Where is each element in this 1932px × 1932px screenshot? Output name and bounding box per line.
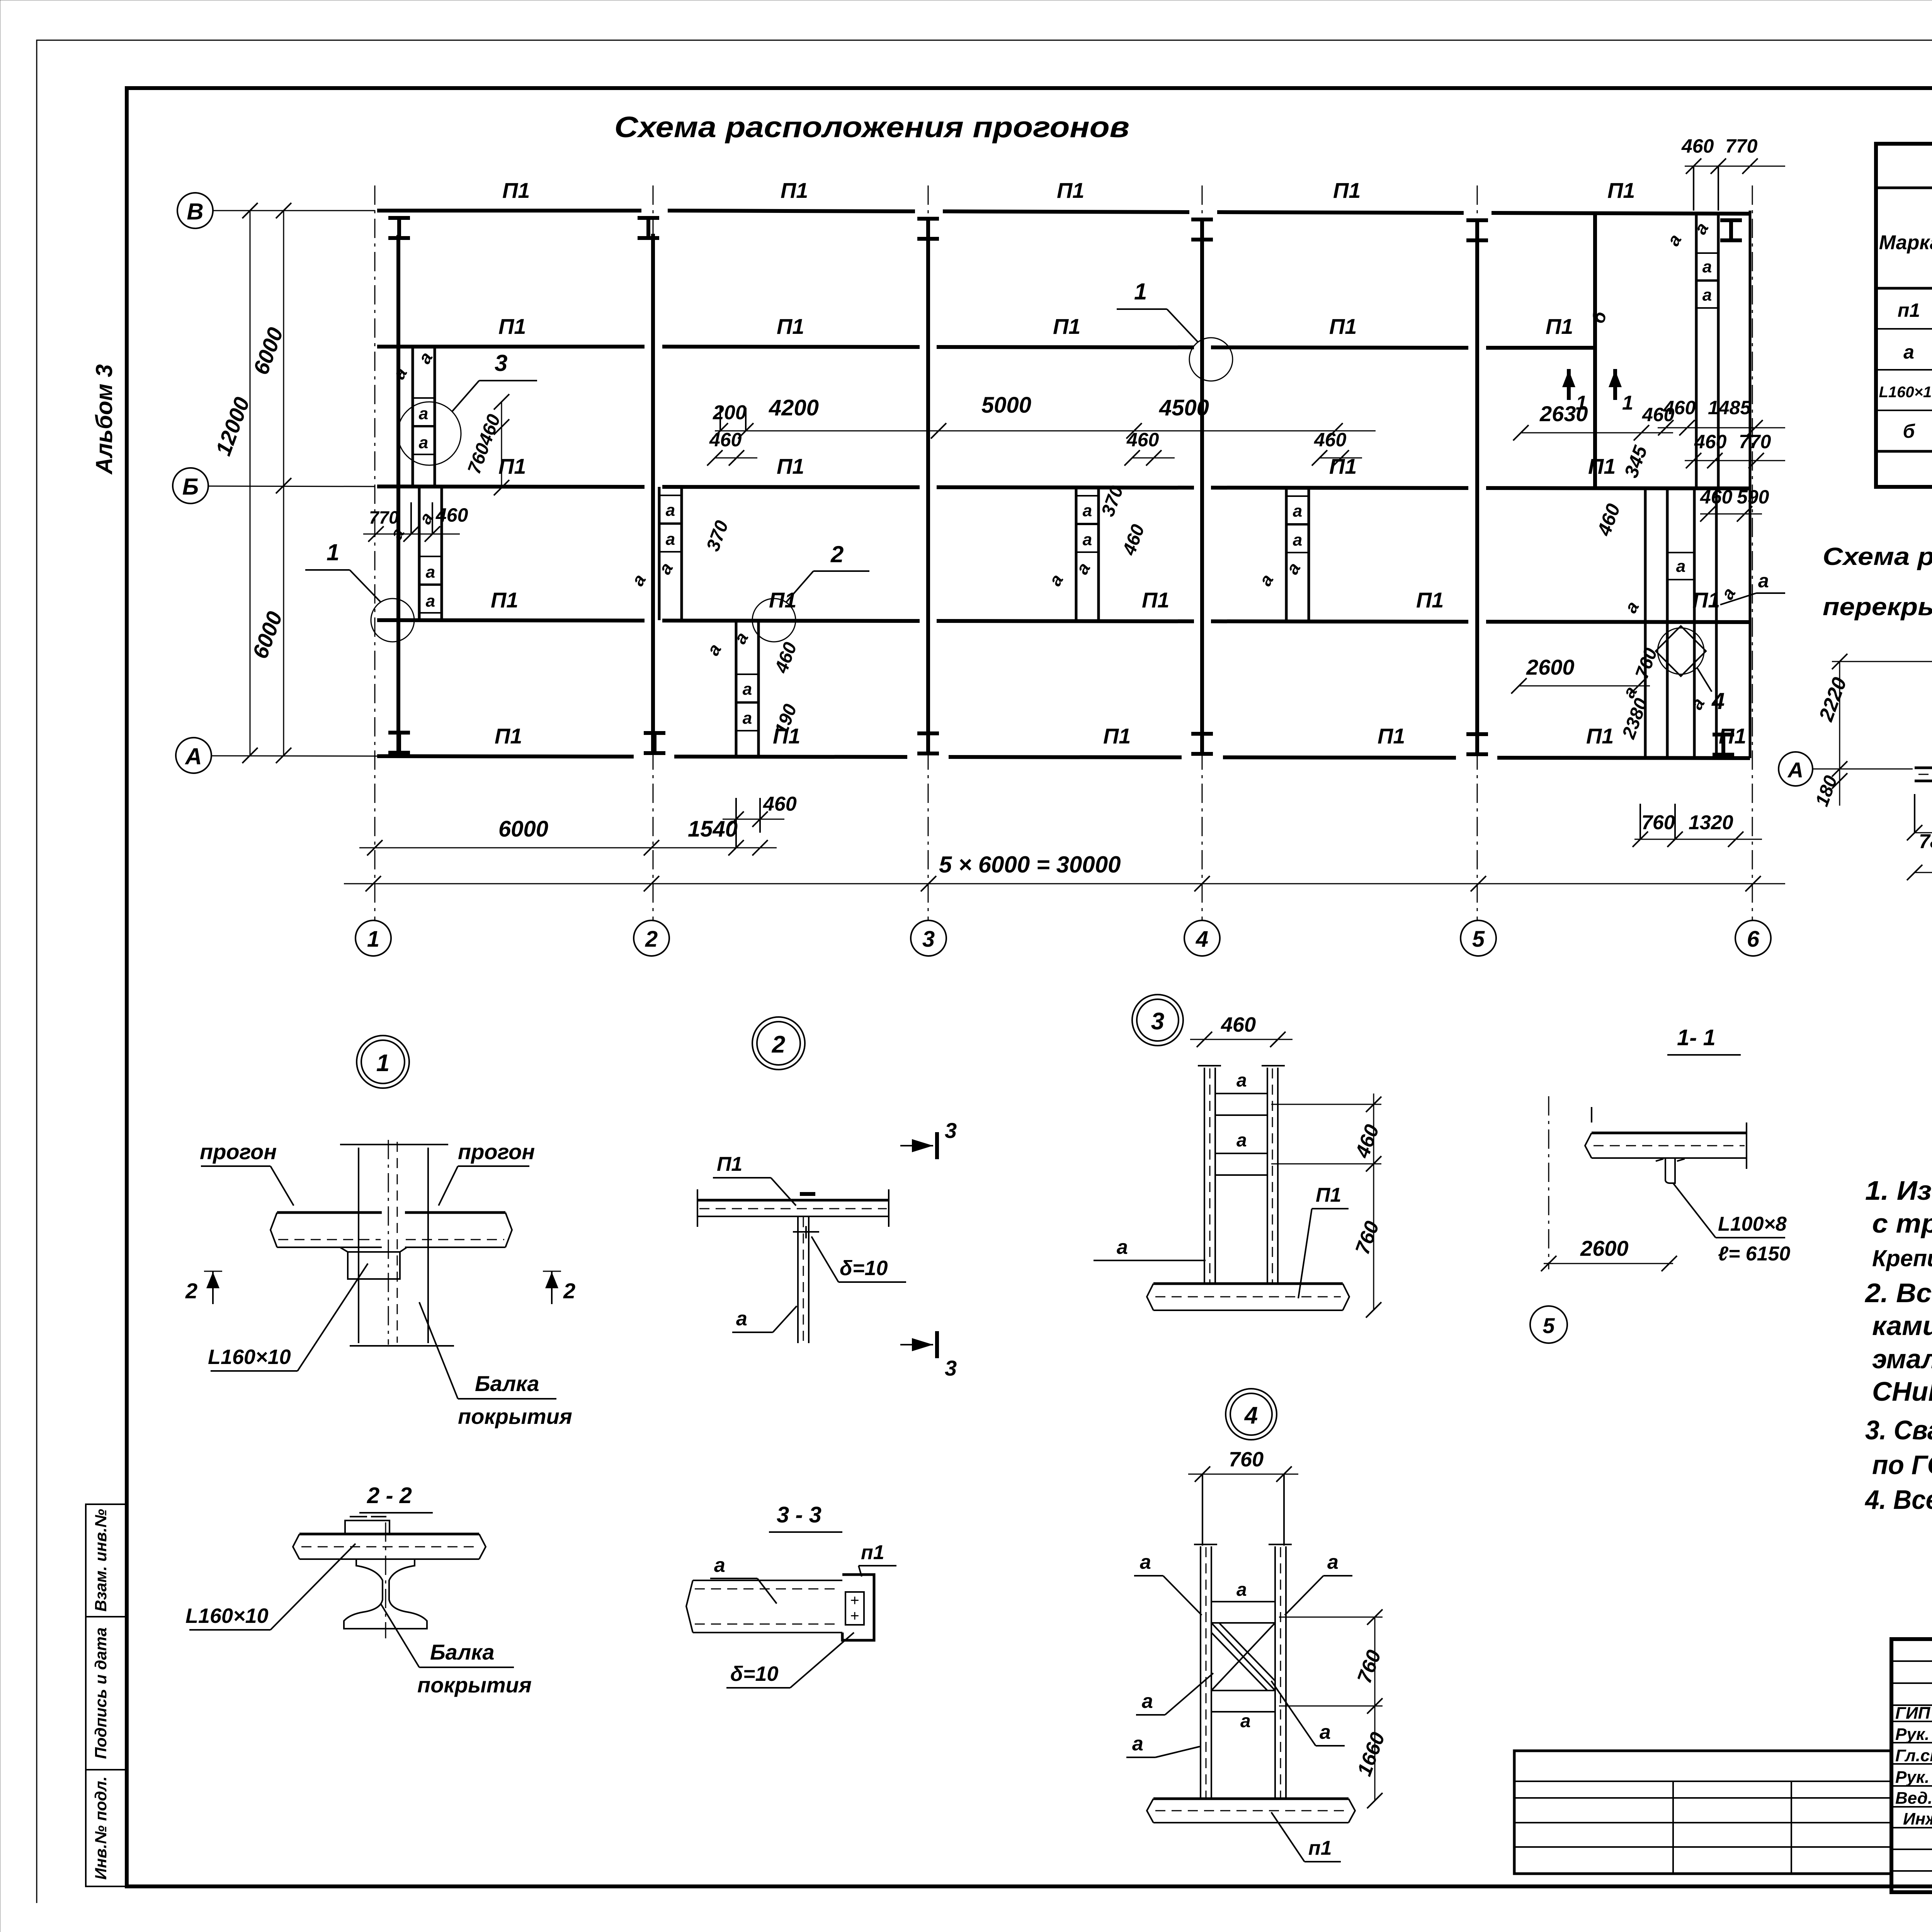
callout circle узел 3 on plan bbox=[398, 350, 537, 465]
svg-text:а: а bbox=[1240, 1711, 1251, 1731]
svg-text:а: а bbox=[1293, 531, 1302, 549]
label 2-2 bbox=[185, 1483, 532, 1697]
svg-text:3: 3 bbox=[1151, 1008, 1164, 1035]
beam column 6 bbox=[1750, 185, 1752, 920]
svg-text:эмалями ПФ-1126 ТУ6-10-1540-7: эмалями ПФ-1126 ТУ6-10-1540-78 в соответ… bbox=[1872, 1344, 1932, 1374]
channel pair bay3 below Б bbox=[1045, 429, 1175, 621]
dim 770 460 below Б col1 bbox=[363, 502, 468, 542]
svg-text:6000: 6000 bbox=[248, 324, 288, 378]
grid row А bbox=[176, 738, 410, 773]
svg-text:460: 460 bbox=[763, 793, 797, 815]
svg-text:460: 460 bbox=[435, 504, 468, 526]
svg-text:П1: П1 bbox=[1057, 178, 1084, 202]
svg-text:4: 4 bbox=[1711, 688, 1725, 714]
dim 460 top bbox=[1190, 1039, 1293, 1040]
svg-text:Схема расположения прогонов: Схема расположения прогонов bbox=[614, 111, 1129, 144]
svg-text:а: а bbox=[714, 1554, 725, 1577]
svg-text:а: а bbox=[666, 530, 675, 549]
svg-text:П1: П1 bbox=[1416, 588, 1444, 612]
svg-text:П1: П1 bbox=[777, 314, 804, 338]
svg-text:а: а bbox=[1083, 501, 1092, 520]
svg-text:СНиП 2.03.11- 85.: СНиП 2.03.11- 85. bbox=[1872, 1376, 1932, 1406]
beam column 2 bbox=[651, 185, 655, 920]
svg-text:а: а bbox=[1702, 257, 1712, 276]
svg-text:П1: П1 bbox=[1103, 724, 1131, 748]
svg-text:а: а bbox=[1676, 557, 1685, 576]
svg-text:П1: П1 bbox=[1378, 724, 1405, 748]
svg-text:3 - 3: 3 - 3 bbox=[777, 1502, 821, 1527]
svg-text:Альбом 3: Альбом 3 bbox=[91, 364, 117, 475]
channel verticals bbox=[1204, 1068, 1205, 1284]
circle 5 bbox=[1530, 1306, 1567, 1343]
callout circle узел 4 on plan bbox=[1658, 628, 1725, 714]
svg-text:П1: П1 bbox=[1607, 178, 1635, 202]
svg-text:п1: п1 bbox=[1308, 1837, 1332, 1859]
beam column 1 bbox=[375, 185, 398, 920]
svg-text:а: а bbox=[666, 501, 675, 520]
channel pair col2 below m2 bbox=[703, 621, 801, 756]
svg-text:а: а bbox=[1717, 584, 1740, 603]
svg-text:L160×10: L160×10 bbox=[1879, 384, 1932, 401]
svg-text:L160×10: L160×10 bbox=[208, 1345, 291, 1369]
svg-text:ками марки I группы и окр: ками марки I группы и окрашиваются эпокс… bbox=[1872, 1311, 1932, 1341]
left margin stamp boxes bbox=[86, 1504, 127, 1886]
top cross bar bbox=[1211, 1602, 1275, 1623]
svg-text:П1: П1 bbox=[1588, 454, 1616, 478]
svg-text:460: 460 bbox=[1681, 135, 1714, 157]
svg-text:460: 460 bbox=[1351, 1122, 1384, 1161]
svg-text:ℓ= 6150: ℓ= 6150 bbox=[1718, 1243, 1790, 1265]
bottom member row А bbox=[1915, 767, 1932, 769]
grid row Б bbox=[173, 468, 375, 503]
svg-text:2 - 2: 2 - 2 bbox=[367, 1483, 412, 1508]
dims right 460 760 bbox=[1373, 1094, 1374, 1310]
channel pair col1 below Б bbox=[386, 487, 442, 620]
svg-text:Инж.: Инж. bbox=[1903, 1810, 1932, 1828]
detail circle 2 bbox=[752, 1017, 805, 1070]
purlin row middle В-Б bbox=[377, 314, 1595, 348]
svg-text:а: а bbox=[743, 680, 752, 699]
svg-text:б: б bbox=[1588, 309, 1611, 326]
svg-text:П1: П1 bbox=[498, 314, 526, 338]
grid row В bbox=[177, 193, 375, 228]
dims 2220 180 bbox=[1839, 662, 1840, 806]
section marks 3 bbox=[935, 1132, 939, 1159]
notes text bbox=[1864, 1175, 1932, 1515]
svg-text:покрытия: покрытия bbox=[458, 1404, 572, 1429]
bottom cross bar bbox=[1211, 1690, 1275, 1712]
svg-text:перекрытия на отм. 2.560: перекрытия на отм. 2.560 bbox=[1823, 593, 1932, 621]
svg-text:1320: 1320 bbox=[1689, 811, 1733, 834]
I-beam symbols row В bbox=[388, 218, 1742, 240]
svg-text:760: 760 bbox=[1351, 1218, 1384, 1257]
svg-text:п1: п1 bbox=[1898, 299, 1920, 321]
dims right 760 1660 bbox=[1374, 1617, 1376, 1801]
П1 band bottom bbox=[1153, 1798, 1349, 1800]
svg-text:а: а bbox=[1132, 1733, 1143, 1755]
svg-text:760: 760 bbox=[1229, 1448, 1264, 1471]
svg-text:а: а bbox=[743, 709, 752, 728]
svg-text:1: 1 bbox=[376, 1050, 389, 1077]
svg-text:+: + bbox=[850, 1607, 859, 1624]
svg-text:а: а bbox=[1140, 1551, 1151, 1573]
beam column 3 bbox=[926, 185, 930, 920]
detail 2 drawing bbox=[697, 1118, 957, 1380]
beam vertical band bbox=[358, 1148, 359, 1343]
dim 3050 bbox=[1915, 872, 1932, 873]
svg-text:а: а bbox=[1663, 231, 1685, 249]
svg-text:а: а bbox=[1117, 1236, 1128, 1259]
beam column 5 bbox=[1475, 185, 1479, 920]
svg-text:с требованиями СНиП II-23-81: с требованиями СНиП II-23-81 „Стальные к… bbox=[1872, 1208, 1932, 1238]
svg-text:Подпись и дата: Подпись и дата bbox=[92, 1628, 110, 1759]
svg-text:180: 180 bbox=[1812, 773, 1842, 809]
detail 1 drawing bbox=[185, 1139, 575, 1429]
section marks 1-1 on plan bbox=[1562, 369, 1633, 414]
svg-text:П1: П1 bbox=[1142, 588, 1169, 612]
purlin band bbox=[1592, 1132, 1747, 1134]
svg-text:а: а bbox=[1045, 571, 1067, 589]
X brace bbox=[1211, 1623, 1275, 1690]
detail circle 3 bbox=[1132, 995, 1183, 1046]
svg-text:а: а bbox=[1293, 502, 1302, 520]
svg-text:4500: 4500 bbox=[1159, 395, 1209, 420]
svg-text:П1: П1 bbox=[1053, 314, 1080, 338]
svg-text:а: а bbox=[1690, 219, 1713, 238]
svg-text:П1: П1 bbox=[1546, 314, 1573, 338]
svg-text:Инв.№ подл.: Инв.№ подл. bbox=[92, 1776, 110, 1879]
right zone: edge member б В-Б bbox=[1588, 211, 1718, 488]
svg-text:2: 2 bbox=[645, 927, 658, 952]
left dimension line 12000 bbox=[211, 203, 258, 763]
svg-text:П1: П1 bbox=[781, 178, 808, 202]
right zone: pairs Б-А with cross bbox=[1618, 486, 1769, 757]
svg-text:П1: П1 bbox=[491, 588, 518, 612]
svg-text:1: 1 bbox=[367, 927, 379, 952]
svg-text:а: а bbox=[1903, 341, 1914, 363]
svg-text:а: а bbox=[628, 571, 650, 589]
svg-text:1660: 1660 bbox=[1353, 1729, 1389, 1779]
svg-text:L100×8: L100×8 bbox=[1718, 1213, 1787, 1235]
dims 200 4200 5000 4500 bbox=[713, 393, 1376, 439]
svg-text:6000: 6000 bbox=[498, 816, 548, 842]
svg-text:770: 770 bbox=[369, 507, 399, 527]
svg-text:1: 1 bbox=[1622, 392, 1633, 414]
svg-text:П1: П1 bbox=[717, 1153, 742, 1175]
svg-text:Рук. бр.: Рук. бр. bbox=[1895, 1725, 1932, 1744]
dimension 2600 above А right bbox=[1511, 655, 1650, 694]
purlin band bbox=[299, 1533, 479, 1536]
svg-text:а: а bbox=[1255, 571, 1277, 589]
circle А bbox=[1779, 752, 1813, 786]
svg-text:а: а bbox=[419, 404, 428, 423]
svg-text:П1: П1 bbox=[502, 178, 530, 202]
detail 4 drawing bbox=[1126, 1448, 1389, 1862]
svg-text:460: 460 bbox=[1119, 522, 1149, 558]
title block bbox=[1891, 1639, 1932, 1892]
dims 460 770 above В right bbox=[1681, 135, 1785, 211]
section 1-1 bbox=[1530, 1025, 1790, 1343]
callout circle узел 1 on plan (col4 m1) bbox=[1117, 279, 1233, 381]
label 3-3 bbox=[686, 1502, 896, 1688]
svg-text:а: а bbox=[1236, 1130, 1247, 1151]
svg-text:1540: 1540 bbox=[688, 816, 738, 842]
svg-text:460: 460 bbox=[1700, 486, 1733, 508]
svg-text:6: 6 bbox=[1747, 927, 1760, 952]
svg-text:п1: п1 bbox=[861, 1541, 884, 1564]
svg-text:Крепить прогоны болтами М20 н: Крепить прогоны болтами М20 нормальной т… bbox=[1872, 1245, 1932, 1271]
svg-text:12000: 12000 bbox=[211, 394, 254, 459]
svg-text:4200: 4200 bbox=[769, 395, 819, 420]
svg-text:4: 4 bbox=[1244, 1402, 1258, 1429]
svg-text:2: 2 bbox=[772, 1031, 785, 1058]
svg-text:а: а bbox=[1320, 1721, 1331, 1743]
svg-text:Вед.инж.: Вед.инж. bbox=[1895, 1789, 1932, 1808]
svg-text:а: а bbox=[655, 559, 677, 578]
section marks 2 bbox=[204, 1271, 222, 1272]
dim 760 top bbox=[1188, 1474, 1298, 1475]
svg-text:Б: Б bbox=[182, 474, 199, 500]
svg-text:1. Изготовление и монтаж пр: 1. Изготовление и монтаж производить в с… bbox=[1865, 1175, 1932, 1206]
bottom dimension 6000 1540 460 bbox=[359, 793, 797, 855]
dims 460 1485 / 460 770 right zone bbox=[1593, 397, 1785, 539]
svg-text:прогон: прогон bbox=[458, 1139, 535, 1164]
svg-text:590: 590 bbox=[1737, 486, 1769, 508]
svg-text:ГИП: ГИП bbox=[1895, 1704, 1931, 1723]
detail circle 4 bbox=[1226, 1389, 1277, 1440]
svg-text:345: 345 bbox=[1620, 442, 1652, 481]
svg-text:460: 460 bbox=[1694, 431, 1727, 452]
svg-text:а: а bbox=[730, 629, 752, 647]
weld mark bbox=[800, 1192, 815, 1196]
svg-text:3: 3 bbox=[945, 1356, 957, 1380]
svg-text:5: 5 bbox=[1543, 1313, 1555, 1338]
svg-text:+: + bbox=[850, 1592, 859, 1609]
vertical label Альбом 3 bbox=[91, 364, 117, 475]
bottom dimension 5x6000=30000 bbox=[344, 852, 1785, 891]
svg-text:460: 460 bbox=[771, 639, 801, 676]
svg-text:460: 460 bbox=[1314, 429, 1347, 451]
svg-text:460: 460 bbox=[1663, 397, 1696, 418]
svg-text:П1: П1 bbox=[1586, 724, 1614, 748]
small graph table left of title block bbox=[1514, 1751, 1891, 1874]
detail 3 drawing bbox=[1094, 1013, 1384, 1318]
angle bracket bbox=[1665, 1158, 1675, 1183]
svg-text:2600: 2600 bbox=[1580, 1236, 1629, 1260]
svg-text:L160×10: L160×10 bbox=[185, 1604, 269, 1628]
svg-text:4. Все сварные швы принять: 4. Все сварные швы принять h шв = 6мм bbox=[1864, 1485, 1932, 1515]
title схема перекрытия bbox=[1823, 543, 1932, 621]
svg-text:1: 1 bbox=[327, 539, 339, 565]
I-beam symbols row А bbox=[388, 733, 1734, 755]
svg-text:а: а bbox=[419, 433, 428, 452]
svg-text:покрытия: покрытия bbox=[417, 1673, 532, 1697]
svg-text:Схема расположения элементов: Схема расположения элементов bbox=[1823, 543, 1932, 570]
svg-text:3: 3 bbox=[495, 350, 507, 376]
svg-text:2. Все металлические конструк: 2. Все металлические конструкции покрыва… bbox=[1864, 1278, 1932, 1308]
svg-text:1485: 1485 bbox=[1708, 397, 1751, 418]
svg-text:460: 460 bbox=[1126, 429, 1159, 451]
dims 780 845 bbox=[1915, 832, 1932, 833]
svg-text:760: 760 bbox=[1353, 1647, 1386, 1686]
svg-text:760: 760 bbox=[1641, 811, 1675, 834]
bolts on top bbox=[345, 1520, 389, 1534]
svg-text:а: а bbox=[414, 349, 437, 367]
purlin row В bbox=[377, 178, 1750, 214]
svg-text:а: а bbox=[1236, 1580, 1247, 1600]
svg-text:а: а bbox=[1327, 1551, 1338, 1573]
svg-text:2: 2 bbox=[830, 541, 844, 567]
svg-text:460: 460 bbox=[709, 429, 742, 451]
svg-text:прогон: прогон bbox=[200, 1139, 277, 1164]
svg-text:3: 3 bbox=[945, 1118, 957, 1143]
svg-text:6000: 6000 bbox=[248, 608, 287, 662]
svg-text:2600: 2600 bbox=[1526, 655, 1575, 679]
svg-text:370: 370 bbox=[703, 518, 733, 554]
channel pair bay4 below Б bbox=[1255, 429, 1362, 621]
svg-text:Балка: Балка bbox=[430, 1640, 495, 1664]
channel pair a: col1 above Б bbox=[389, 347, 437, 485]
svg-text:770: 770 bbox=[1725, 135, 1758, 157]
svg-text:Рук. гр.: Рук. гр. bbox=[1895, 1768, 1932, 1787]
svg-text:а: а bbox=[703, 640, 725, 659]
svg-text:5: 5 bbox=[1472, 927, 1485, 952]
svg-text:А: А bbox=[1787, 758, 1803, 782]
svg-text:200: 200 bbox=[713, 401, 747, 424]
title: Схема расположения прогонов bbox=[614, 111, 1129, 144]
grid circles 1-6 bbox=[355, 920, 1771, 956]
svg-text:4: 4 bbox=[1196, 927, 1208, 952]
svg-text:П1: П1 bbox=[777, 454, 804, 478]
channel pair col2 below Б bbox=[628, 429, 757, 620]
svg-text:δ=10: δ=10 bbox=[840, 1257, 888, 1280]
svg-text:2: 2 bbox=[185, 1279, 197, 1303]
table Ведомость элементов bbox=[1876, 144, 1932, 489]
callout circle узел 1 on plan (col1 m2) bbox=[305, 539, 414, 642]
svg-text:2: 2 bbox=[563, 1279, 575, 1303]
svg-text:а: а bbox=[426, 563, 435, 582]
svg-text:В: В bbox=[187, 199, 203, 224]
purlin row middle Б-А bbox=[377, 570, 1785, 622]
svg-text:5000: 5000 bbox=[981, 393, 1031, 418]
svg-text:а: а bbox=[426, 592, 435, 611]
svg-text:а: а bbox=[1758, 570, 1769, 592]
floor scheme plan bbox=[1779, 610, 1932, 949]
svg-text:П1: П1 bbox=[1316, 1184, 1341, 1206]
svg-text:Гл.спец.: Гл.спец. bbox=[1895, 1746, 1932, 1765]
svg-text:2220: 2220 bbox=[1815, 674, 1851, 724]
channel horizontal bbox=[693, 1580, 842, 1581]
svg-text:1- 1: 1- 1 bbox=[1677, 1025, 1716, 1050]
svg-text:а: а bbox=[1621, 598, 1643, 616]
svg-text:460: 460 bbox=[1593, 501, 1624, 539]
svg-text:780: 780 bbox=[1919, 830, 1932, 853]
purlin row Б bbox=[377, 454, 1750, 488]
purlin horizontal band bbox=[277, 1211, 382, 1214]
bolted plate bbox=[348, 1252, 400, 1279]
dimension 760 1320 below А right bbox=[1633, 804, 1762, 847]
svg-text:3. Сварку производить электр: 3. Сварку производить электродами типа Э… bbox=[1865, 1415, 1932, 1445]
svg-text:Балка: Балка bbox=[475, 1371, 539, 1396]
svg-text:А: А bbox=[184, 743, 202, 769]
svg-text:а: а bbox=[1702, 286, 1712, 304]
П1 band bottom bbox=[1153, 1282, 1343, 1285]
svg-text:П1: П1 bbox=[495, 724, 522, 748]
svg-text:770: 770 bbox=[1739, 431, 1771, 452]
svg-text:П1: П1 bbox=[498, 454, 526, 478]
svg-text:1: 1 bbox=[1134, 279, 1147, 304]
vertical channel a bbox=[797, 1216, 799, 1343]
left dimension line 6000+6000 bbox=[248, 203, 291, 763]
svg-text:П1: П1 bbox=[1333, 178, 1361, 202]
vertical dims 460 760 right of pair bbox=[464, 394, 509, 495]
end plate with bolts bbox=[842, 1575, 874, 1640]
beam column 4 bbox=[1200, 185, 1204, 920]
callout circle узел 2 on plan bbox=[752, 541, 869, 642]
svg-text:Взам. инв.№: Взам. инв.№ bbox=[92, 1509, 110, 1612]
svg-text:1: 1 bbox=[1576, 392, 1587, 414]
svg-text:Марка: Марка bbox=[1879, 231, 1932, 254]
svg-text:б: б bbox=[1903, 420, 1916, 442]
svg-text:по ГОСТ 9467-75.: по ГОСТ 9467-75. bbox=[1872, 1450, 1932, 1480]
purlin row А bbox=[377, 724, 1750, 758]
detail circle 1 bbox=[357, 1036, 409, 1088]
svg-text:δ=10: δ=10 bbox=[730, 1662, 779, 1685]
svg-text:а: а bbox=[1236, 1070, 1247, 1091]
dims 2630 460 right bbox=[1513, 401, 1675, 440]
svg-text:а: а bbox=[1686, 694, 1709, 713]
svg-text:460: 460 bbox=[1221, 1013, 1256, 1036]
svg-text:П1: П1 bbox=[1329, 314, 1357, 338]
svg-text:а: а bbox=[1083, 530, 1092, 549]
svg-text:3: 3 bbox=[922, 927, 935, 952]
channel verticals bbox=[1200, 1546, 1201, 1799]
cross bars bbox=[1215, 1094, 1267, 1115]
rail section bbox=[344, 1559, 427, 1629]
svg-text:а: а bbox=[1142, 1690, 1153, 1713]
svg-text:5 × 6000 = 30000: 5 × 6000 = 30000 bbox=[939, 852, 1121, 878]
svg-text:а: а bbox=[736, 1308, 747, 1330]
svg-text:2380: 2380 bbox=[1618, 696, 1652, 742]
